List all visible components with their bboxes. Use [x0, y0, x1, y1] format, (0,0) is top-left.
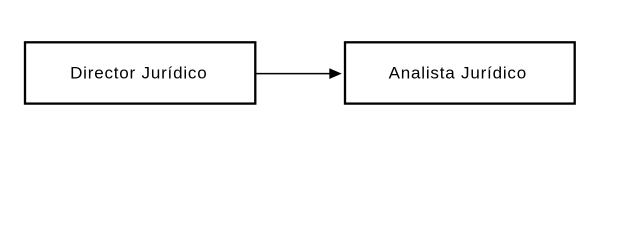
- box: Director Jurídico: [25, 42, 255, 103]
- box: Analista Jurídico: [345, 42, 575, 103]
- svg-text:Analista Jurídico: Analista Jurídico: [389, 63, 527, 82]
- svg-text:Director Jurídico: Director Jurídico: [70, 63, 207, 82]
- arrowhead: [329, 68, 342, 79]
- wire: connector line: [256, 73, 330, 75]
